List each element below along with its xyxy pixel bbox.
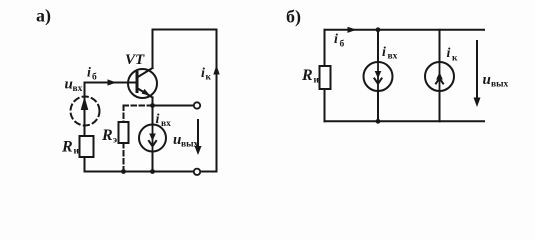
svg-text:вх: вх (73, 84, 83, 94)
svg-text:VT: VT (125, 52, 145, 68)
label i_vx (b) (382, 45, 398, 62)
wire: left vertical top (b) (324, 30, 326, 66)
label u_vx (65, 77, 83, 95)
svg-text:вых: вых (181, 140, 199, 150)
svg-text:э: э (113, 136, 117, 146)
wire: below R_i to bottom (84, 157, 86, 172)
u_vyx arrow (b) (476, 41, 478, 101)
resistor R_e (119, 122, 129, 143)
svg-text:вх: вх (388, 52, 398, 62)
arrow inside u_vx source (up) (84, 100, 86, 112)
svg-text:R: R (301, 67, 313, 84)
svg-text:б: б (340, 38, 345, 49)
svg-text:R: R (61, 139, 73, 156)
wire: collector vertical up (152, 30, 154, 69)
wire: left vertical (source branch) (84, 83, 86, 137)
junction bottom middle (b) (376, 119, 381, 124)
svg-text:i: i (382, 45, 386, 60)
arrow inside i_vx (b) (down, double) (377, 63, 379, 91)
label u_vyx (b) (483, 72, 509, 90)
wire: bottom horizontal (b) (325, 120, 485, 122)
wire: output horizontal to terminal (153, 105, 194, 107)
current source i_vx circle (139, 125, 166, 152)
current source i_vx (b) circle (364, 62, 393, 91)
svg-text:u: u (483, 72, 491, 88)
svg-text:вых: вых (491, 80, 509, 90)
svg-text:к: к (206, 73, 212, 83)
transistor collector diagonal (137, 68, 153, 78)
wire: right vertical top (b) (439, 30, 441, 62)
svg-text:и: и (314, 76, 320, 86)
dashed wire: R_e vertical bottom (123, 143, 125, 172)
junction at emitter bottom (150, 169, 155, 174)
junction at emitter/output node (150, 103, 155, 108)
svg-text:i: i (334, 32, 338, 47)
dashed wire: horizontal to R_e branch (124, 105, 153, 107)
svg-text:б): б) (286, 7, 301, 28)
svg-text:R: R (101, 127, 113, 144)
arrow inside i_vx source (down, double) (152, 125, 154, 151)
wire: right vertical bottom (b) (439, 91, 441, 121)
dashed wire: R_e vertical top (123, 106, 125, 123)
label u_vyx (a) (173, 132, 199, 150)
resistor R_i (80, 136, 94, 157)
label i_k (b) (447, 46, 459, 64)
svg-text:i: i (201, 66, 205, 81)
label i_b (b) (334, 32, 345, 49)
transistor emitter diagonal with arrow (137, 88, 153, 98)
label R_e (101, 127, 117, 146)
resistor R_n (b) (320, 66, 331, 89)
svg-text:к: к (452, 54, 458, 64)
wire: below i_vx source to bottom (152, 152, 154, 172)
svg-text:вх: вх (161, 119, 171, 129)
svg-text:и: и (74, 147, 80, 157)
wire: bottom horizontal right part (200, 171, 216, 173)
label i_vx (156, 112, 172, 129)
label R_n (b) (301, 67, 320, 86)
junction top middle (b) (376, 27, 381, 32)
wire: top horizontal (153, 29, 217, 31)
wire: right vertical with i_k arrow (216, 30, 218, 172)
voltage source u_vx dashed circle (71, 97, 100, 126)
wire: left vertical bottom (b) (324, 89, 326, 121)
svg-text:а): а) (36, 6, 51, 27)
wire: emitter vertical down to i_vx source (152, 98, 154, 126)
label i_b (87, 66, 97, 83)
svg-text:i: i (87, 66, 91, 81)
junction at R_e bottom (121, 169, 126, 174)
wire: middle vertical bottom (b) (377, 91, 379, 121)
current source i_k (b) circle (425, 62, 454, 91)
label R_i (61, 139, 80, 157)
terminal lower (open circle) (194, 169, 200, 175)
u_vyx arrow (a) (197, 120, 199, 149)
wire: bottom horizontal left part (85, 171, 194, 173)
terminal upper (open circle) (194, 102, 200, 108)
transistor VT circle (128, 69, 157, 98)
label i_k (201, 66, 212, 83)
wire: middle vertical top (b) (377, 30, 379, 62)
svg-text:i: i (447, 46, 451, 61)
svg-text:б: б (92, 72, 97, 83)
svg-text:i: i (156, 112, 160, 127)
transistor base bar (136, 73, 139, 92)
wire: top horizontal (b) with i_b arrow (325, 29, 485, 31)
arrow inside i_k (b) (up, double) (439, 63, 441, 91)
wire: base horizontal with i_b arrow (85, 82, 137, 84)
